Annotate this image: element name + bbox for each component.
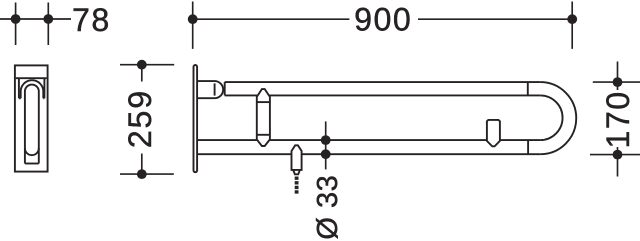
side view tube sleeve with inner arch <box>25 85 39 164</box>
top tube junction line <box>527 82 529 95</box>
side view sleeve bottom line <box>25 163 39 165</box>
dim 78 dot left <box>11 14 21 24</box>
svg-text:Ø 33: Ø 33 <box>312 175 344 240</box>
dim 170 vertical stubs <box>617 62 619 177</box>
side view outer plate rectangle <box>15 65 48 171</box>
side view inner top line <box>16 77 47 79</box>
dim diameter 33 vertical line <box>325 121 327 169</box>
svg-text:78: 78 <box>72 2 111 38</box>
dim 78 dot right <box>43 14 53 24</box>
tube end joint line at hinge <box>224 82 226 95</box>
dim 900 dot right <box>567 14 577 24</box>
dim 259 extension lines <box>120 65 174 174</box>
u-bend inner arc <box>540 95 562 140</box>
svg-text:259: 259 <box>122 89 158 148</box>
top tube top line <box>225 81 541 83</box>
dim 170 dot bottom <box>613 150 623 160</box>
top tube bottom line <box>225 94 541 96</box>
side view stubs <box>19 97 45 99</box>
side view outer arch of folded tube <box>21 80 44 98</box>
dim 259 dot bottom <box>137 169 147 179</box>
u-bend outer arc <box>540 82 576 154</box>
strut lower cross line <box>257 134 270 136</box>
pendant neck <box>293 170 300 174</box>
pendant cord dashed <box>295 177 299 194</box>
dim 170 extension lines <box>590 82 640 155</box>
pentagon clip on bottom tube <box>487 120 500 146</box>
vertical strut between tubes <box>257 89 270 146</box>
side view inner box verticals <box>19 78 45 98</box>
pendant body below bottom tube <box>292 145 302 170</box>
dim 900 dot left <box>188 14 198 24</box>
side view tube end cup arc <box>25 148 39 155</box>
bottom tube top line <box>198 139 540 141</box>
dim 78 line <box>0 18 71 20</box>
hinge housing <box>198 81 223 98</box>
dim 33 dot bottom <box>321 149 331 159</box>
front view wall plate <box>194 65 198 172</box>
bottom tube bottom line <box>198 153 540 155</box>
svg-text:170: 170 <box>600 90 636 148</box>
dim 259 dot top <box>137 60 147 70</box>
dim 170 dot top <box>613 77 623 87</box>
hinge housing chord line <box>214 83 216 95</box>
dim 259 vertical stubs <box>141 65 143 174</box>
dim 78 extension verticals <box>16 3 49 46</box>
dim 33 dot top <box>321 135 331 145</box>
svg-text:900: 900 <box>354 1 412 37</box>
dim 900 line <box>193 18 573 20</box>
bottom tube junction line <box>527 140 529 154</box>
dim 900 extension verticals <box>193 2 573 49</box>
strut upper cross line <box>257 101 270 103</box>
